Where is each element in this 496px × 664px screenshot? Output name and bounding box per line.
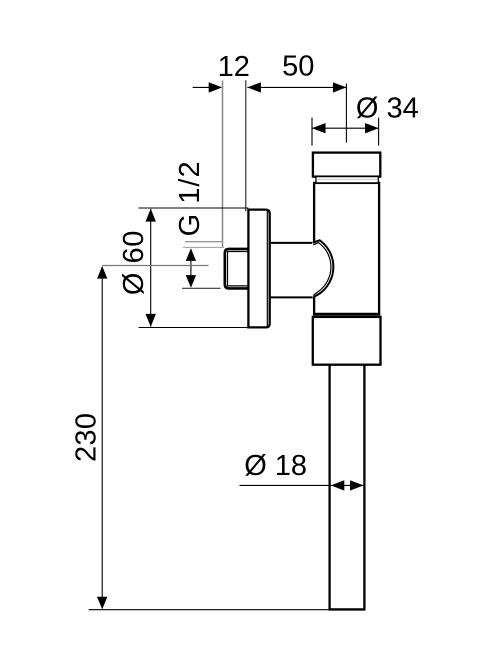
dim line d18 inside pipe [331,484,364,486]
inlet pipe bottom edge [270,296,314,298]
svg-text:Ø 60: Ø 60 [118,231,150,296]
dim line 12/50 tail [193,86,210,88]
dim line G1/2 [190,249,192,287]
wall flange (d60) [248,210,269,328]
svg-text:50: 50 [282,50,314,82]
extension line 230 bottom [89,609,329,611]
union nut G1/2 [225,249,249,289]
G1/2 bottom extension line [182,287,221,289]
cap (d34) [313,153,380,177]
arrowhead G1/2 up [186,248,196,261]
extension line 12 left [222,81,224,248]
svg-text:Ø 34: Ø 34 [356,92,419,124]
arrowhead d18 right [350,480,364,490]
union bulge silhouette [312,240,333,298]
union bulge outer edge [313,240,334,297]
extension line d60 bottom [139,327,249,329]
center line of inlet [102,265,208,267]
union bulge inner edge [313,243,331,296]
arrowhead G1/2 down [186,275,196,288]
flange edge highlight [266,211,268,326]
arrowhead 50 left (pointing left) [247,82,261,92]
arrowhead 50 right (pointing right) [333,82,347,92]
dim line d60 [150,209,152,327]
arrowhead 230 down [97,597,107,610]
extension line d60 top [139,207,249,209]
dim line 50 [247,86,346,88]
G1/2 top extension line [183,246,224,248]
arrowhead d34 left [312,123,326,133]
arrowhead d60 up [146,209,156,222]
svg-text:230: 230 [70,413,102,462]
groove shading line [318,178,378,180]
union nut inner face [228,252,249,286]
arrowhead 12 left (pointing right) [209,82,223,92]
extension line d34 right [378,118,380,146]
valve body bottom thick edge [313,313,380,316]
valve body [314,183,379,314]
dim leader d18 [240,484,331,486]
flush pipe bottom edge [329,608,366,610]
flush pipe left edge [328,365,330,610]
inlet pipe top edge [270,242,314,244]
dim line 230 [101,267,103,609]
svg-text:12: 12 [218,51,250,83]
svg-text:Ø 18: Ø 18 [244,450,307,482]
flush pipe right edge [363,365,365,610]
dim line d34 [312,127,379,129]
cap groove ring [316,177,378,183]
arrowhead 230 up [97,266,107,279]
arrowhead d18 left [331,480,345,490]
G1/2 upper reference line [185,241,223,243]
center extension line of body top [345,84,347,143]
arrowhead d60 down [146,314,156,327]
lower housing [313,317,381,365]
extension line 12 right [245,80,247,211]
arrowhead d34 right [365,123,379,133]
svg-text:G 1/2: G 1/2 [174,161,206,236]
extension line d34 left [311,118,313,146]
